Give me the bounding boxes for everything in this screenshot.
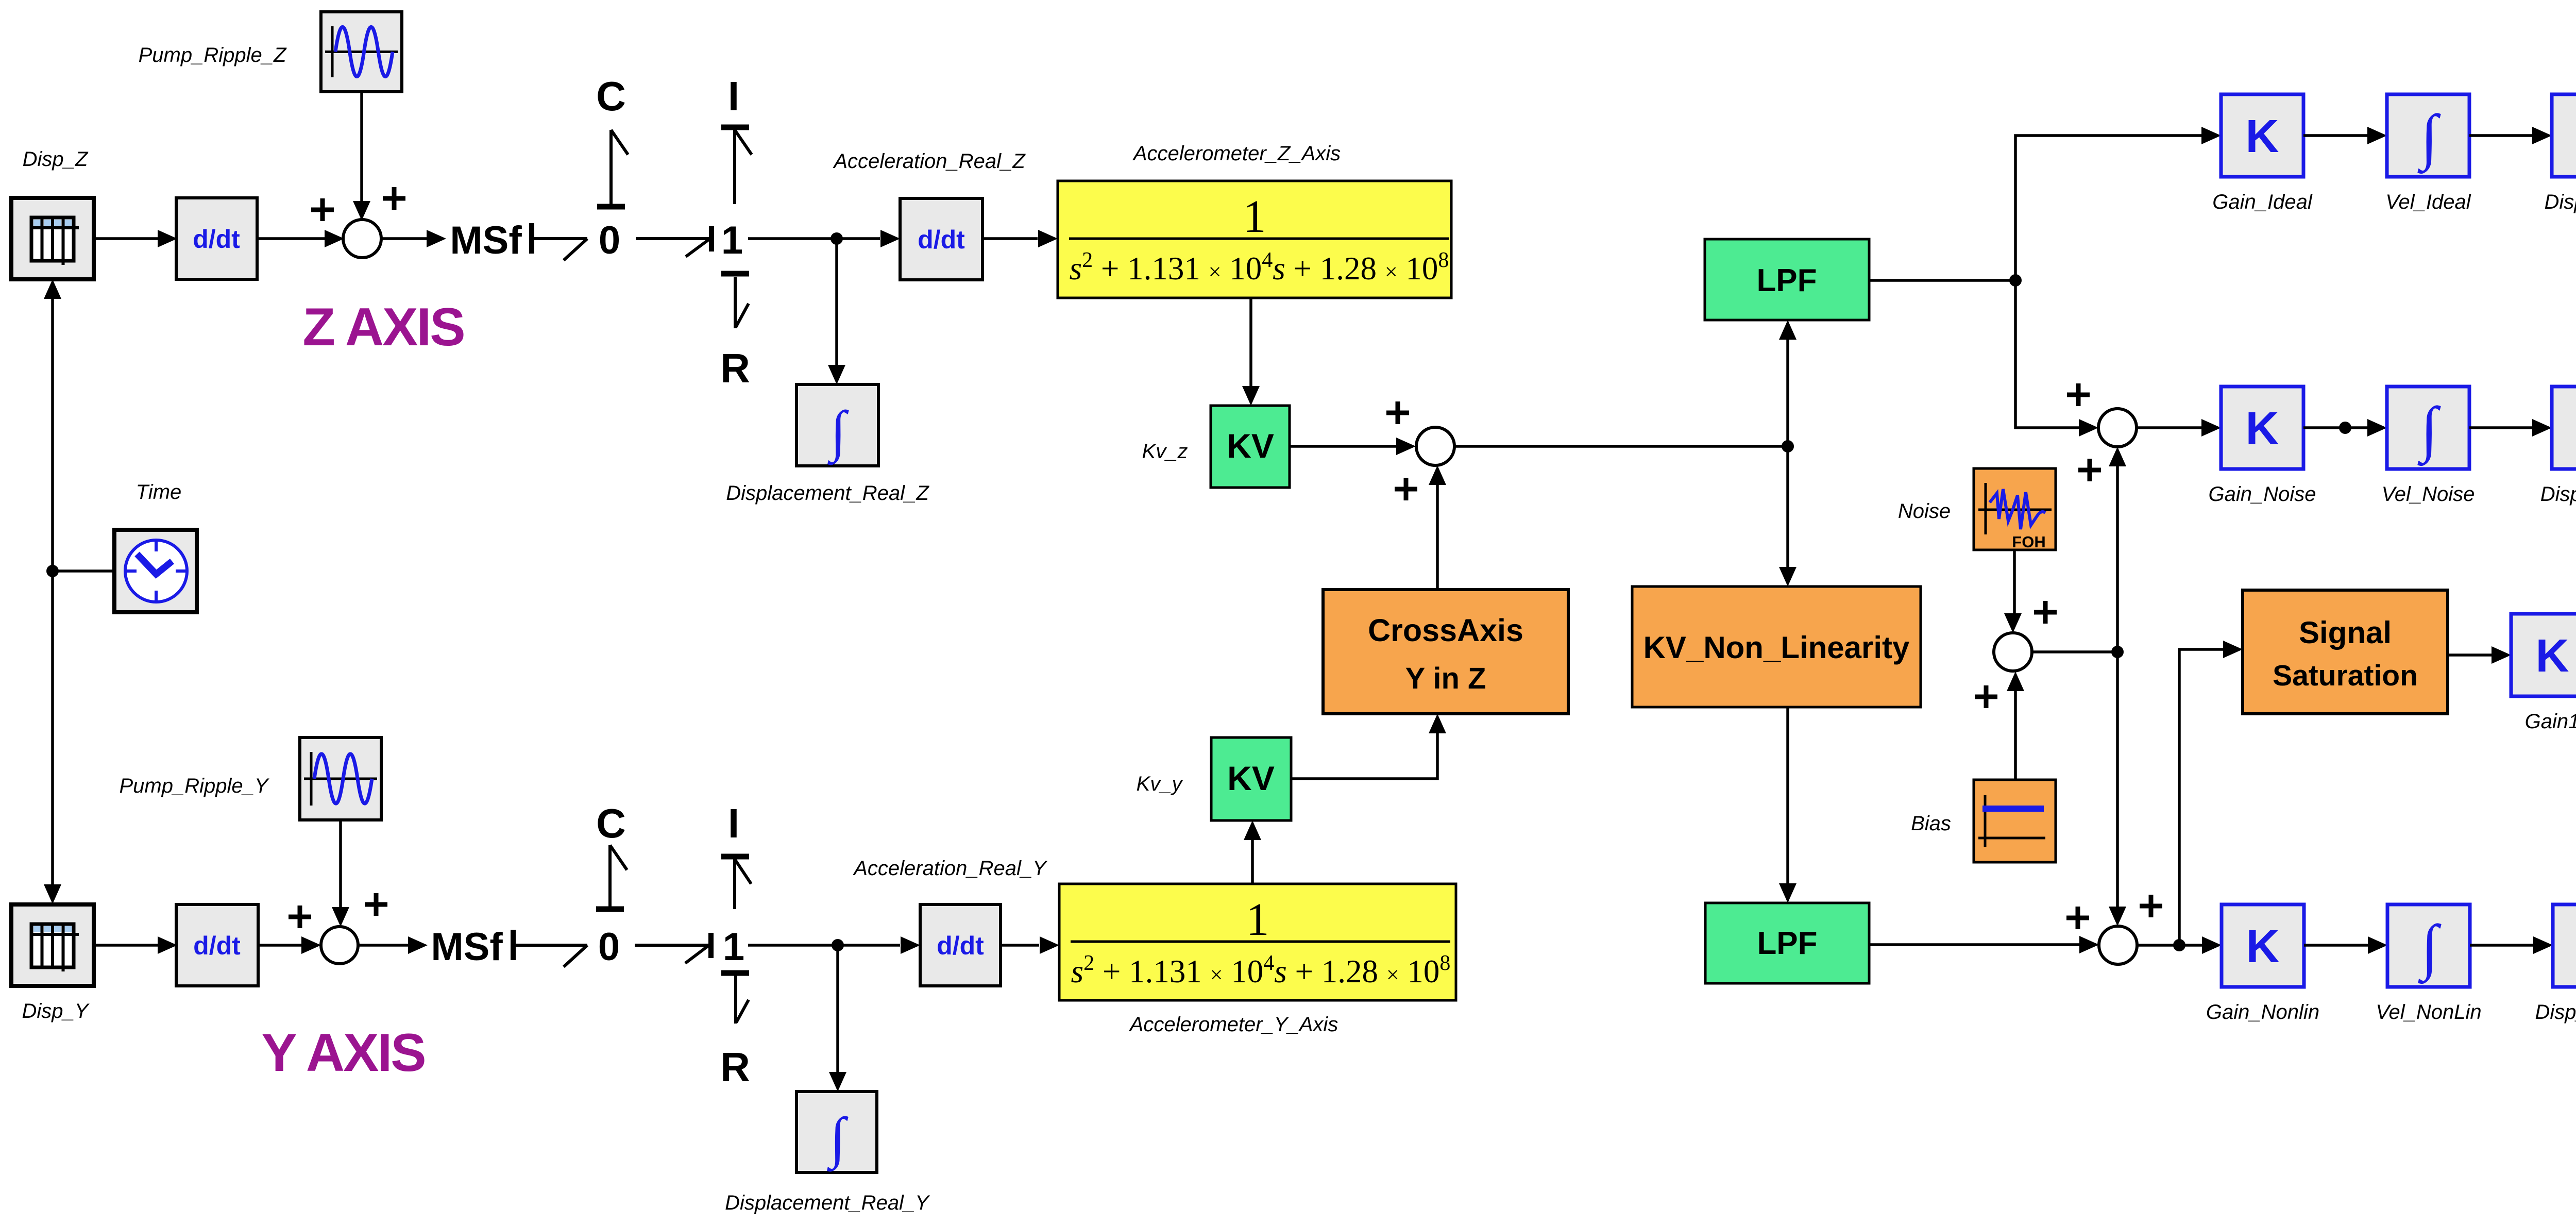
svg-text:Z AXIS: Z AXIS: [302, 297, 464, 357]
svg-text:R: R: [720, 1044, 750, 1090]
svg-text:R: R: [720, 345, 750, 391]
plus sign nonlinear sum left: [2066, 907, 2089, 929]
svg-text:Kv_z: Kv_z: [1142, 440, 1188, 463]
bond R element Y: [720, 973, 750, 1090]
wire node Y to Displacement integrator: [829, 945, 846, 1092]
svg-text:0: 0: [598, 925, 620, 969]
svg-text:MSf: MSf: [431, 925, 503, 969]
wire node to d/dt Z 2: [837, 230, 900, 247]
block Vel_Ideal integrator: [2387, 94, 2469, 177]
block Vel_Noise integrator: [2387, 387, 2469, 469]
svg-text:Gain1: Gain1: [2525, 710, 2576, 733]
wire nonlinear sum to Gain_Nonlin with node: [2137, 936, 2222, 954]
svg-text:Disp_NonLin: Disp_NonLin: [2535, 1001, 2576, 1024]
bond MSf Z to 0-junction with causal stroke: [532, 223, 587, 260]
svg-text:∫: ∫: [827, 399, 849, 465]
block KV gain Kv_z: [1211, 406, 1290, 488]
wire 1-junction Y to node: [748, 944, 838, 947]
svg-text:d/dt: d/dt: [937, 931, 984, 960]
block Gain_Nonlin K: [2222, 904, 2304, 987]
wire Disp_Y to d/dt Y: [94, 936, 177, 954]
bond C element Y: [596, 800, 627, 909]
wire node down to nonlinear sum: [2109, 652, 2126, 926]
svg-text:KV: KV: [1227, 427, 1274, 465]
wire node up and right to Gain_Ideal: [2015, 127, 2221, 280]
svg-text:Displacement_Real_Y: Displacement_Real_Y: [725, 1192, 930, 1214]
wire Noise to noise-bias sum: [2004, 550, 2022, 633]
wire KV sum to LPF node: [1454, 445, 1788, 448]
svg-text:Time: Time: [136, 481, 182, 504]
svg-text:Disp_Noise: Disp_Noise: [2540, 483, 2576, 506]
wire LPF 1 to ideal node: [1869, 279, 2015, 282]
svg-text:Acceleration_Real_Z: Acceleration_Real_Z: [833, 150, 1026, 173]
svg-text:Displacement_Real_Z: Displacement_Real_Z: [726, 482, 929, 505]
node Z acceleration tap: [831, 232, 843, 245]
wire Pump_Ripple_Y to sum Y: [332, 820, 349, 927]
block LPF upper: [1705, 239, 1869, 320]
bond 0 to 1 junction Z with half-arrow and causal stroke: [636, 226, 711, 257]
node LPF ideal split: [2009, 274, 2022, 287]
svg-text:K: K: [2246, 921, 2280, 973]
node noise-bias split: [2111, 646, 2124, 658]
block Time clock source: [114, 530, 197, 612]
wire Vel_Noise to Disp_Noise: [2469, 419, 2552, 437]
svg-text:Noise: Noise: [1898, 500, 1951, 523]
svg-text:d/dt: d/dt: [918, 225, 965, 254]
svg-text:I: I: [728, 73, 739, 119]
svg-text:K: K: [2246, 111, 2279, 162]
svg-text:1: 1: [1243, 191, 1266, 242]
plus sign noise-bias sum upper right: [2034, 601, 2057, 624]
plus sign sum Z right: [383, 187, 405, 210]
wire d/dt to Accelerometer_Y_Axis: [1001, 936, 1059, 954]
svg-text:d/dt: d/dt: [193, 225, 240, 254]
wire Gain_Ideal to Vel_Ideal: [2303, 127, 2387, 144]
plus sign sum Z left: [311, 198, 334, 221]
svg-text:Disp_Z: Disp_Z: [23, 148, 89, 171]
wire node down to KV_Non_Linearity: [1779, 446, 1797, 586]
wire Bias up to noise-bias sum: [2007, 672, 2024, 780]
wire Gain_Noise to Vel_Noise with node: [2303, 419, 2387, 437]
block Disp_Y (table data source): [11, 904, 94, 986]
svg-text:Accelerometer_Y_Axis: Accelerometer_Y_Axis: [1129, 1013, 1338, 1036]
block d/dt Y main: [176, 904, 258, 986]
sum junction Z: [343, 220, 381, 258]
wire node up to LPF 1: [1779, 320, 1797, 446]
block Displacement_Real_Z integrator: [796, 384, 878, 466]
sum junction noise plus bias: [1994, 633, 2032, 671]
svg-text:Acceleration_Real_Y: Acceleration_Real_Y: [853, 857, 1048, 880]
svg-text:Vel_Noise: Vel_Noise: [2382, 483, 2475, 506]
plus sign KV sum lower: [1395, 478, 1417, 500]
sum junction KV outputs: [1416, 427, 1454, 465]
svg-text:Pump_Ripple_Z: Pump_Ripple_Z: [139, 44, 287, 66]
wire Signal Saturation to Gain1: [2448, 646, 2511, 664]
block Disp_Z (table data source): [11, 198, 94, 279]
wire Vel_Ideal to Disp_Ideal: [2469, 127, 2552, 144]
svg-text:Bias: Bias: [1911, 812, 1951, 835]
plus sign noise sum upper left: [2067, 383, 2090, 406]
wire node down and right to noise sum: [2015, 280, 2098, 437]
svg-text:Vel_Ideal: Vel_Ideal: [2385, 191, 2471, 213]
wire node to d/dt Y 2: [838, 936, 920, 954]
svg-text:Accelerometer_Z_Axis: Accelerometer_Z_Axis: [1132, 142, 1341, 165]
plus sign noise-bias sum lower left: [1975, 685, 1997, 708]
wire Accelerometer_Z to KV gain: [1242, 298, 1260, 406]
svg-text:1: 1: [721, 219, 743, 262]
wire node up to noise sum: [2109, 447, 2126, 652]
wire LPF lower to nonlinear sum: [1869, 936, 2099, 953]
svg-text:C: C: [596, 73, 626, 119]
svg-text:I: I: [728, 800, 739, 846]
svg-text:C: C: [596, 800, 626, 846]
svg-text:FOH: FOH: [2012, 533, 2045, 551]
block d/dt Z main: [176, 198, 257, 279]
bond 0 to 1 junction Y with half-arrow and causal stroke: [635, 933, 711, 963]
wire 1-junction Z to node and d/dt: [748, 237, 837, 240]
svg-text:K: K: [2246, 403, 2279, 455]
plus sign sum Y right: [365, 893, 387, 916]
wire sum Z to MSf Z: [381, 230, 446, 247]
block Disp_Noise integrator: [2552, 387, 2576, 469]
block d/dt Z acceleration: [900, 198, 982, 280]
node Time split: [46, 565, 59, 577]
wire sum Y to MSf Y: [358, 936, 428, 954]
bond I element Y: [721, 800, 751, 909]
sum junction nonlinear: [2099, 926, 2137, 964]
block Displacement_Real_Y integrator: [796, 1092, 877, 1172]
block Signal Saturation: [2243, 590, 2448, 714]
svg-text:CrossAxis: CrossAxis: [1368, 613, 1523, 648]
wire d/dt Y to sum Y: [258, 936, 321, 954]
plus sign noise sum lower: [2078, 459, 2101, 481]
svg-text:KV: KV: [1227, 759, 1275, 797]
wire Gain_Nonlin to Vel_NonLin: [2304, 936, 2387, 954]
block Gain_Noise K: [2221, 387, 2303, 469]
svg-text:Vel_NonLin: Vel_NonLin: [2376, 1001, 2481, 1024]
svg-text:∫: ∫: [827, 1106, 849, 1172]
wire noise sum to Gain_Noise: [2137, 419, 2221, 437]
bond C element Z: [596, 73, 628, 207]
wire Pump_Ripple_Z to sum Z: [353, 92, 370, 221]
svg-text:0: 0: [599, 219, 620, 262]
wire d/dt Z to sum Z: [257, 230, 344, 247]
plus sign nonlinear sum right: [2140, 895, 2162, 917]
svg-text:Pump_Ripple_Y: Pump_Ripple_Y: [119, 775, 269, 797]
wire node up to Signal Saturation: [2179, 641, 2243, 945]
block Gain_Ideal K: [2221, 94, 2303, 177]
block Noise FOH source: [1974, 468, 2056, 551]
svg-text:Saturation: Saturation: [2273, 659, 2418, 692]
svg-text:Gain_Ideal: Gain_Ideal: [2212, 191, 2313, 213]
wire KV_Non_Linearity to LPF lower: [1779, 707, 1797, 903]
node KV signal split: [1782, 440, 1794, 452]
svg-text:Gain_Noise: Gain_Noise: [2208, 483, 2316, 506]
sum junction Y: [321, 927, 358, 964]
bond I element Z: [721, 73, 752, 204]
svg-text:d/dt: d/dt: [193, 931, 241, 960]
block KV gain Kv_y: [1211, 737, 1291, 820]
svg-text:Kv_y: Kv_y: [1137, 773, 1184, 795]
block d/dt Y acceleration: [920, 904, 1001, 986]
wire Vel_NonLin to Disp_NonLin: [2470, 936, 2553, 954]
wire node Z to Displacement integrator: [828, 239, 845, 384]
bond MSf Y to 0-junction with causal stroke: [513, 930, 587, 967]
wire Time spine vertical: [44, 279, 61, 904]
wire noise-bias sum to split node: [2032, 650, 2117, 653]
wire CrossAxis output up to KV sum: [1429, 465, 1446, 590]
wire Accelerometer_Y to KV y: [1244, 820, 1261, 884]
plus sign KV sum upper: [1386, 401, 1409, 424]
plus sign sum Y left: [289, 906, 311, 928]
block Pump_Ripple_Y (sine source): [300, 737, 381, 820]
svg-text:Signal: Signal: [2299, 615, 2392, 650]
block Pump_Ripple_Z (sine source): [321, 12, 402, 92]
block Vel_NonLin integrator: [2387, 904, 2470, 987]
wire Disp_Z to d/dt Z: [94, 230, 177, 247]
svg-text:MSf: MSf: [450, 219, 522, 262]
svg-text:LPF: LPF: [1757, 926, 1817, 961]
bond R element Z: [720, 274, 750, 391]
svg-text:K: K: [2536, 630, 2569, 682]
svg-text:Y in Z: Y in Z: [1405, 662, 1486, 695]
svg-text:Y AXIS: Y AXIS: [261, 1023, 425, 1083]
wire d/dt to Accelerometer_Z_Axis: [982, 230, 1058, 247]
wire node to Time clock: [53, 569, 114, 573]
svg-text:Disp_Ideal: Disp_Ideal: [2544, 191, 2576, 213]
block Disp_Ideal integrator: [2552, 94, 2576, 177]
block Bias source: [1974, 780, 2056, 862]
sum junction noise: [2098, 409, 2137, 447]
block Disp_NonLin integrator: [2553, 904, 2576, 987]
block LPF lower: [1705, 903, 1869, 983]
svg-text:1: 1: [1246, 894, 1269, 945]
svg-text:Gain_Nonlin: Gain_Nonlin: [2206, 1001, 2319, 1024]
svg-text:1: 1: [723, 925, 744, 969]
svg-text:KV_Non_Linearity: KV_Non_Linearity: [1643, 630, 1910, 665]
wire KV z to sum: [1290, 438, 1416, 455]
svg-text:LPF: LPF: [1756, 263, 1817, 298]
svg-text:Disp_Y: Disp_Y: [22, 1000, 90, 1022]
node Y acceleration tap: [832, 939, 844, 951]
block Gain1 K: [2511, 614, 2576, 696]
block Accelerometer_Y_Axis transfer function: [1059, 884, 1456, 1000]
block KV_Non_Linearity: [1632, 586, 1921, 707]
wire KV y to CrossAxis: [1291, 714, 1446, 779]
block Accelerometer_Z_Axis transfer function: [1058, 181, 1451, 298]
block CrossAxis Y in Z: [1323, 590, 1568, 714]
